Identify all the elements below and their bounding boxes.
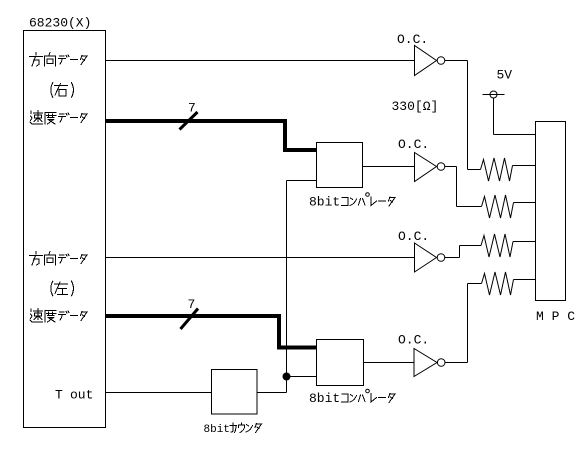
wire U3 output to resistor R2 <box>445 167 482 207</box>
5V supply terminal <box>483 91 505 98</box>
wire direction-right from 68230 to inverter U2 <box>106 60 415 62</box>
comparator U7 box <box>317 340 364 386</box>
wire U5 output to resistor R4 <box>445 284 482 363</box>
svg-text:O.C.: O.C. <box>398 137 429 152</box>
pin label sokudo-data (speed data, right) <box>30 111 87 125</box>
counter U8 box <box>212 370 258 415</box>
inverter U4 (open collector buffer) <box>415 243 445 272</box>
wire direction-left from 68230 to inverter U4 <box>106 257 415 259</box>
inverter U5 (open collector buffer) <box>414 349 445 377</box>
svg-text:8bit: 8bit <box>309 195 340 210</box>
IC U1 68230 parallel interface/timer box <box>24 31 106 428</box>
bus slash mark <box>181 309 199 330</box>
svg-text:7: 7 <box>188 297 196 312</box>
resistor R3 330 ohm pull-up <box>481 234 535 257</box>
bus 7-wide speed-data right from 68230 to comparator U6 <box>106 121 317 150</box>
wire U2 output to pull-up resistor R1 <box>445 61 481 170</box>
label 8bit comparator (U7) <box>309 389 395 406</box>
wire counter U8 output <box>257 377 287 393</box>
svg-text:O.C.: O.C. <box>398 333 429 348</box>
pin label (hidari) (left) <box>51 281 74 296</box>
wire counter node to comparator U7 second input <box>287 376 317 378</box>
MPC connector box <box>536 122 566 301</box>
svg-text:out: out <box>70 388 93 403</box>
wire Tout from 68230 to counter U8 <box>106 392 212 394</box>
wire 5V to MPC <box>494 98 536 135</box>
svg-text:5V: 5V <box>497 68 513 83</box>
svg-text:O.C.: O.C. <box>397 32 428 47</box>
svg-text:8bit: 8bit <box>309 391 340 406</box>
resistor R1 330 ohm pull-up <box>481 158 536 181</box>
bus 7-wide speed-data left from 68230 to comparator U7 <box>106 316 317 348</box>
svg-text:8bit: 8bit <box>204 424 230 436</box>
junction dot node A <box>283 373 291 381</box>
bus slash mark <box>180 112 198 130</box>
pin label houkou-data (direction data, right) <box>30 53 88 67</box>
resistor R4 330 ohm pull-up <box>482 272 536 295</box>
wire counter node up to comparator U6 second input <box>287 181 317 377</box>
label 8bit comparator (U6) <box>309 193 395 210</box>
svg-text:M P C: M P C <box>536 309 575 324</box>
comparator U6 box <box>317 143 363 188</box>
svg-text:O.C.: O.C. <box>398 229 429 244</box>
pin label sokudo-data (speed data, left) <box>30 309 87 323</box>
resistor R2 330 ohm pull-up <box>482 195 536 218</box>
wire comparator U6 output to inverter U3 <box>363 166 415 168</box>
svg-text:68230(X): 68230(X) <box>29 16 91 31</box>
svg-text:330[Ω]: 330[Ω] <box>392 99 439 114</box>
inverter U3 (open collector buffer) <box>415 153 445 182</box>
pin label houkou-data (direction data, left) <box>30 252 88 266</box>
label 8bit counter (U8) <box>204 423 262 436</box>
wire comparator U7 output to inverter U5 <box>364 362 415 364</box>
svg-text:T: T <box>55 388 63 403</box>
wire U4 output to resistor R3 <box>445 246 481 258</box>
inverter U2 (open collector buffer) <box>415 46 445 76</box>
pin label (migi) (right) <box>51 83 74 98</box>
